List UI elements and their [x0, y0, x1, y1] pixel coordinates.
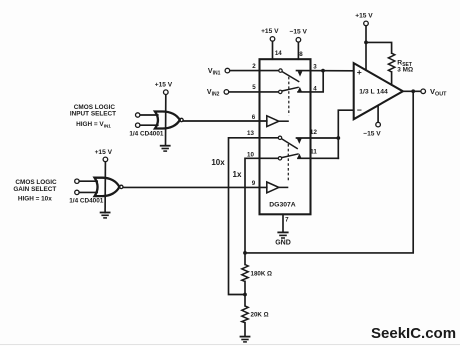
resistor R1 180K zigzag	[242, 265, 248, 282]
IC U2 DG307A box	[260, 59, 311, 214]
svg-text:12: 12	[310, 129, 317, 136]
svg-text:9: 9	[252, 180, 256, 187]
wire pin 10 to feedback node	[245, 158, 260, 253]
svg-text:4: 4	[313, 85, 317, 92]
switch S2b throw contact arrow (pin 11)	[297, 154, 302, 159]
wire 180K leads	[244, 253, 246, 265]
junction node output	[411, 89, 415, 93]
switch S1b throw contact arrow (pin 4)	[297, 87, 302, 92]
wire feedback from output to divider	[245, 91, 413, 253]
svg-text:11: 11	[310, 149, 317, 156]
wire pin 12	[297, 137, 339, 139]
svg-text:8: 8	[299, 51, 303, 58]
dashed control link switch 1	[288, 77, 290, 116]
NOR gate U1a input terminals	[136, 113, 140, 128]
wire -15V stub of op-amp	[377, 106, 379, 122]
svg-text:1/4 CD4001: 1/4 CD4001	[69, 198, 104, 205]
wire pin 10 inner to pole	[260, 157, 279, 159]
wire pin 8 stem	[297, 42, 299, 59]
svg-text:20K Ω: 20K Ω	[251, 311, 269, 318]
wire RSET bottom lead	[391, 72, 393, 85]
svg-text:GND: GND	[275, 240, 291, 247]
bottom edge line	[0, 344, 460, 346]
terminal +15V pin14	[270, 37, 275, 42]
wire pin 13 inner to pole	[260, 137, 279, 139]
svg-text:+15 V: +15 V	[261, 28, 279, 35]
resistor R2 20K zigzag	[242, 306, 248, 323]
wire pin 11	[298, 157, 338, 159]
wire +15V to op-amp top	[365, 26, 367, 70]
svg-text:CMOS LOGIC: CMOS LOGIC	[15, 179, 57, 186]
junction node feedback/180K	[243, 251, 247, 255]
op-amp U3 1/3 L144	[354, 63, 403, 119]
dashed control link switch 2	[287, 144, 289, 182]
svg-text:−15 V: −15 V	[363, 130, 381, 137]
resistor RSET zigzag	[388, 53, 394, 72]
terminal +15V op-amp	[364, 21, 369, 26]
junction node pin3	[321, 69, 325, 73]
svg-text:HIGH = 10x: HIGH = 10x	[18, 195, 52, 202]
terminal +15V above NOR2	[103, 157, 108, 162]
svg-text:VOUT: VOUT	[430, 87, 447, 98]
wire RSET top branch	[366, 42, 392, 53]
svg-text:14: 14	[275, 50, 282, 57]
ground NOR2	[100, 213, 111, 218]
switch S2a pole (pin 13)	[278, 136, 298, 149]
svg-text:SeekIC.com: SeekIC.com	[371, 325, 456, 342]
wire VIN2 to pin 5	[229, 91, 260, 93]
ground pin 7 GND	[277, 232, 288, 238]
svg-text:INPUT SELECT: INPUT SELECT	[70, 111, 116, 118]
wire pin 3 to op-amp + input	[297, 70, 354, 72]
wire NOR1 +15V stem through gate	[165, 95, 167, 146]
svg-text:180K Ω: 180K Ω	[251, 270, 273, 277]
svg-text:DG307A: DG307A	[269, 201, 296, 208]
terminal -15V op-amp	[376, 122, 381, 127]
svg-text:2: 2	[252, 63, 256, 70]
NOR gate U1b (gain select, 1/4 CD4001)	[95, 178, 123, 196]
svg-text:1/4 CD4001: 1/4 CD4001	[129, 131, 164, 138]
wire NOR2 input stubs	[79, 180, 97, 182]
svg-text:3: 3	[313, 63, 317, 70]
wire pin 5 inner to pole	[260, 91, 279, 93]
wire pin 7 stem	[282, 214, 284, 231]
switch S1b pole (pin 5)	[279, 87, 299, 93]
buffer driver pin 6	[267, 116, 289, 127]
switch S1a pole (pin 2)	[279, 69, 300, 82]
junction node +15V/RSET	[364, 41, 368, 45]
switch S1a throw contact arrow (pin 3)	[298, 71, 303, 76]
svg-text:5: 5	[252, 84, 256, 91]
svg-text:7: 7	[285, 217, 289, 224]
wire NOR2 +15V stem through gate	[104, 162, 106, 213]
svg-text:+15 V: +15 V	[95, 149, 113, 156]
wire pin 2 inner to pole	[260, 70, 279, 72]
wire VIN1 to pin 2	[230, 70, 260, 72]
svg-text:10x: 10x	[211, 158, 225, 167]
wire 20K leads	[244, 295, 246, 306]
junction node pin12	[336, 136, 340, 140]
svg-text:+: +	[357, 67, 362, 77]
svg-text:+15 V: +15 V	[355, 13, 373, 20]
svg-text:GAIN SELECT: GAIN SELECT	[13, 186, 56, 193]
svg-text:VIN2: VIN2	[207, 89, 220, 98]
wire op-amp output	[403, 90, 421, 92]
svg-text:HIGH = VIN1: HIGH = VIN1	[76, 121, 111, 128]
buffer driver pin 9	[267, 182, 289, 193]
junction node divider tap	[243, 293, 247, 297]
switch S2b pole (pin 10)	[278, 154, 298, 160]
svg-text:VIN1: VIN1	[208, 68, 221, 77]
svg-text:1/3 L 144: 1/3 L 144	[359, 89, 388, 96]
terminal VIN1	[225, 68, 230, 73]
wire NOR2 output to pin 9 buffer	[123, 186, 266, 188]
wire pin 14 stem	[272, 41, 274, 59]
svg-text:1x: 1x	[233, 170, 242, 179]
wire NOR1 output to pin 6 buffer	[183, 120, 267, 122]
svg-text:3 MΩ: 3 MΩ	[397, 67, 413, 74]
svg-text:13: 13	[247, 130, 254, 137]
terminal VOUT	[421, 89, 426, 94]
wire pin 13 to divider tap	[229, 138, 260, 295]
ground 20K	[240, 337, 251, 342]
wire NOR1 input stubs	[140, 114, 158, 116]
svg-text:10: 10	[247, 152, 254, 159]
svg-text:−: −	[357, 105, 362, 115]
svg-text:−15 V: −15 V	[289, 28, 307, 35]
terminal +15V above NOR1	[164, 90, 169, 95]
ground NOR1	[160, 146, 171, 151]
NOR gate U1b input terminals	[75, 179, 79, 195]
NOR gate U1a (input select, 1/4 CD4001)	[155, 112, 183, 129]
terminal -15V pin8	[296, 38, 301, 43]
switch S2a throw contact arrow (pin 12)	[297, 139, 302, 144]
svg-text:6: 6	[252, 114, 256, 121]
wire to op-amp inverting input	[338, 110, 353, 158]
wire pin 4 to node of pin 3	[298, 71, 323, 92]
svg-text:+15 V: +15 V	[155, 81, 173, 88]
terminal VIN2	[224, 90, 229, 95]
